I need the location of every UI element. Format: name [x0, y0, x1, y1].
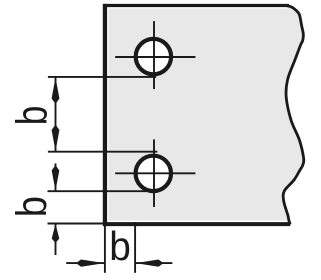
svg-text:b: b — [8, 106, 56, 126]
svg-text:b: b — [109, 224, 131, 269]
svg-text:b: b — [7, 196, 56, 217]
